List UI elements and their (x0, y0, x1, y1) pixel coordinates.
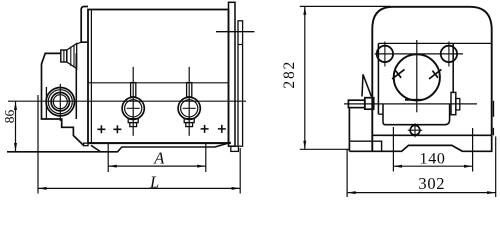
plus mark 1 (97, 125, 105, 133)
svg-text:L: L (149, 172, 159, 191)
oil port boss 2 circle (178, 97, 200, 119)
wire: line through bolt centers (375, 53, 463, 55)
oil port boss 1 inner circle (125, 100, 142, 117)
dimension L: dim line (38, 187, 240, 189)
front plate left edge (377, 43, 379, 114)
x mark left on flange (392, 69, 404, 79)
sight glass inner ring (53, 95, 67, 109)
sight glass outer circle (46, 88, 74, 116)
arrowhead 302 right (487, 191, 496, 194)
dimension A: dim line (108, 165, 206, 167)
plus mark 3 (201, 125, 209, 133)
sight glass ring 3 (51, 93, 69, 111)
wire: left step under plate (378, 113, 383, 115)
wire: drain plug crosshair (408, 123, 423, 137)
drain plug circle (410, 125, 420, 135)
right lug inner step (456, 99, 460, 110)
plus mark 2 (113, 125, 121, 133)
end cap foot block (84, 143, 88, 146)
arrowhead A left (108, 165, 117, 168)
arrowhead L left (38, 187, 47, 190)
dimension 86: vertical dim line (15, 101, 17, 151)
motor housing outline with rounded top (372, 7, 491, 152)
wire: horizontal centerline of shaft, left view (8, 100, 246, 102)
plus mark 4 (218, 125, 226, 133)
arrowhead 282 top (303, 6, 306, 15)
wire: boss 2 center tick (183, 107, 196, 109)
body of pump (main cylinder, side view) (88, 10, 229, 144)
wire: side tube on housing right edge (493, 101, 495, 117)
arrowhead 86 bottom (14, 143, 17, 152)
wire: gauge pointer line at right end (216, 31, 255, 33)
svg-text:140: 140 (420, 150, 446, 167)
base top line (372, 134, 491, 136)
wire: tab-to-funnel connector (77, 42, 82, 44)
arrowhead 282 bottom (303, 141, 306, 150)
svg-text:302: 302 (418, 174, 445, 193)
wire: sight glass vertical centerline (59, 84, 61, 121)
x mark right on flange (429, 69, 441, 79)
wire: bolt right vertical centerline (448, 42, 450, 67)
wire: boss 2 vertical centerline (188, 67, 190, 136)
arrowhead 140 left (393, 165, 402, 168)
bolt circle left (377, 46, 393, 62)
clamp funnel wedge (67, 44, 77, 69)
nut lower step boss 2 (186, 123, 193, 127)
wire: upper horizontal line across housing (378, 42, 491, 44)
stud on boss 2 (187, 83, 192, 97)
wire: bracket right face vertical (75, 53, 77, 119)
dimension 302: dim line (347, 192, 496, 194)
wire: interior horizontal line of body (88, 82, 229, 84)
base foot profile, left view (7, 142, 231, 152)
clamp block on bracket top (61, 50, 67, 62)
dimension 140: dim line (393, 165, 472, 167)
right gauge tube bar (238, 21, 243, 146)
svg-text:86: 86 (2, 109, 17, 123)
wire: base pocket line (349, 141, 381, 151)
wire: inner vertical line at body left (90, 10, 92, 144)
wire: bracket inner bore vertical (45, 87, 47, 119)
right lug outer block (451, 92, 456, 114)
stud on boss 1 (131, 83, 136, 97)
shaft stub left (348, 100, 364, 107)
left end cap plate (81, 7, 88, 43)
nut below boss 1 (128, 119, 138, 123)
nut lower step boss 1 (130, 123, 137, 127)
arrowhead 140 right (464, 165, 473, 168)
gusset plate (362, 74, 371, 96)
wire: 282 bottom extension line (300, 148, 350, 150)
base left wall (348, 108, 350, 151)
shaft flange block (365, 98, 374, 110)
dimension 140: extension lines (392, 127, 394, 172)
arrowhead L right (232, 187, 241, 190)
svg-text:A: A (153, 149, 165, 168)
sight glass ring 2 (48, 90, 72, 114)
bolt circle right (441, 46, 457, 62)
wire: big circle vertical centerline (416, 40, 418, 112)
wire: funnel inner vertical (70, 47, 72, 67)
right end foot block (231, 146, 239, 151)
wire: funnel inner vertical 2 (73, 45, 75, 67)
flange big circle (394, 54, 440, 100)
oil port boss 2 inner circle (181, 100, 198, 117)
dimension A: extension lines (107, 144, 109, 173)
oil box outline (383, 104, 450, 125)
oil port boss 1 circle (122, 97, 144, 119)
wire: boss 1 vertical centerline (132, 67, 134, 136)
arrowhead 302 left (347, 191, 356, 194)
arrowhead A right (197, 165, 206, 168)
nut below boss 2 (184, 119, 194, 123)
dimension L: extension lines (37, 95, 39, 194)
wire: housing foot flare right (492, 128, 494, 136)
dimension 282: dim line (304, 6, 306, 149)
bracket housing outline (left bearing bracket) (42, 53, 84, 145)
wire: 282 top extension line (300, 5, 391, 7)
right end plate bar (229, 2, 236, 146)
dimension 302: extension lines (346, 150, 348, 198)
wire: boss 1 center tick (127, 107, 140, 109)
wire: oil level line in circle (405, 99, 422, 101)
wire: gauge tube cap line (238, 44, 243, 46)
wire: lug centerline horizontal (344, 103, 477, 105)
front plate right edge (452, 43, 454, 92)
arrowhead 86 top (14, 101, 17, 110)
wire: clamp inner vertical (63, 50, 65, 62)
base top line (body bottom), left view (88, 142, 231, 144)
base bottom profile (349, 135, 491, 151)
wire: bolt left vertical centerline (384, 42, 386, 67)
svg-text:282: 282 (281, 60, 298, 89)
